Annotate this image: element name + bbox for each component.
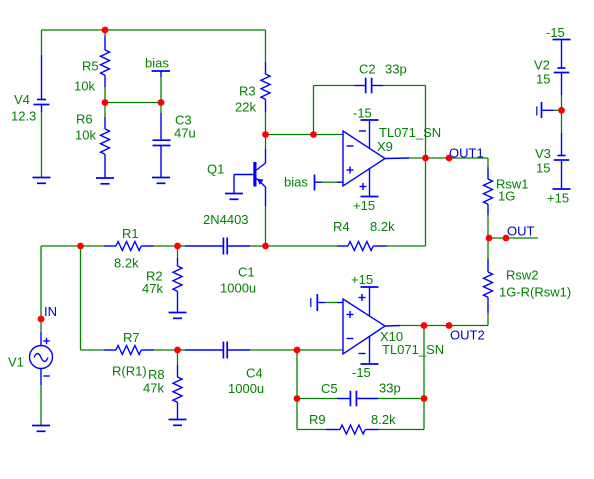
svg-text:8.2k: 8.2k — [370, 219, 395, 234]
terminal bar bias X9 — [315, 175, 344, 191]
node dot C1 / Q1 emitter / R4 — [262, 243, 269, 250]
wire Rsw2 to OUT2 row — [487, 313, 489, 326]
wire bias terminal to X9 +input — [322, 181, 337, 183]
wire V1 to ground — [40, 385, 42, 426]
node dot IN / R1 / R7 branch — [77, 243, 84, 250]
svg-text:R4: R4 — [333, 219, 350, 234]
svg-text:R9: R9 — [309, 412, 326, 427]
node dot Rsw1 / Rsw2 — [486, 235, 493, 242]
svg-text:47k: 47k — [142, 281, 163, 296]
svg-text:bias: bias — [145, 56, 169, 71]
wire node to X10 inverting input — [297, 349, 343, 351]
voltage source V1 sine — [30, 332, 53, 385]
svg-text:OUT: OUT — [507, 224, 535, 239]
wire C2 left leg — [313, 86, 315, 135]
wire C2 row right — [383, 85, 426, 87]
resistor Rsw2 — [484, 259, 493, 313]
svg-text:V1: V1 — [8, 355, 24, 370]
svg-text:TL071_SN: TL071_SN — [379, 125, 441, 140]
resistor R4 — [337, 242, 387, 251]
wire corner down to V1 — [40, 246, 42, 332]
svg-text:R(R1): R(R1) — [112, 364, 147, 379]
transistor Q1 2N4403 — [234, 149, 266, 206]
svg-text:V2: V2 — [534, 58, 550, 73]
ground below R8 — [169, 420, 187, 426]
svg-text:+15: +15 — [351, 272, 373, 287]
node dot R3 / Q1 collector — [262, 131, 269, 138]
svg-text:-15: -15 — [353, 106, 372, 121]
svg-text:-15: -15 — [352, 365, 371, 380]
wire Q1 emitter to C1 node — [265, 206, 267, 246]
voltage source V4 battery symbol — [34, 55, 50, 112]
ground below C3 — [152, 178, 170, 184]
svg-text:I: I — [309, 295, 313, 310]
svg-text:33p: 33p — [385, 62, 407, 77]
wire R9 row left — [297, 429, 326, 431]
svg-text:C2: C2 — [359, 62, 376, 77]
voltage source V3 lead — [561, 133, 563, 156]
capacitor C2 — [355, 78, 383, 94]
svg-text:47k: 47k — [143, 381, 164, 396]
node dot V2 / V3 / I — [558, 107, 565, 114]
resistor R9 — [326, 425, 379, 434]
wire top rail V4+ to R3 — [42, 29, 266, 31]
node dot bias / C3 — [158, 99, 165, 106]
wire OUT node down to Rsw2 — [487, 238, 489, 259]
wire top rail to R3 — [265, 30, 267, 62]
wire V4 top — [41, 30, 43, 55]
svg-text:+15: +15 — [353, 198, 375, 213]
wire C1 to Q1 node — [250, 245, 266, 247]
node dot IN — [38, 316, 45, 323]
op-amp X10 TL071_SN — [343, 287, 385, 364]
wire I terminal to node — [554, 109, 562, 111]
wire Q1 node to X9 inverting input — [266, 134, 344, 136]
svg-text:X9: X9 — [377, 139, 393, 154]
svg-text:R7: R7 — [123, 330, 140, 345]
svg-text:2N4403: 2N4403 — [203, 212, 249, 227]
resistor R5 — [101, 36, 110, 87]
svg-text:OUT1: OUT1 — [449, 146, 484, 161]
resistor R7 — [104, 346, 154, 355]
terminal bar I at X10 +input — [317, 294, 343, 311]
ground at Q1 base — [225, 175, 243, 200]
node dot C4 / X10 -input — [294, 347, 301, 354]
svg-text:1000u: 1000u — [228, 381, 264, 396]
svg-text:47u: 47u — [174, 126, 196, 141]
wire X9 output to OUT1 corner — [409, 157, 488, 159]
voltage source V2 battery — [554, 68, 570, 73]
wire node to R4 — [266, 245, 338, 247]
wire top rail to R5 — [104, 30, 106, 36]
wire R1 node down to R7 row — [80, 246, 82, 350]
terminal bar +15 right — [553, 160, 571, 189]
wire V4- to ground — [41, 112, 43, 178]
wire C5 row right — [378, 398, 424, 400]
svg-text:V4: V4 — [14, 92, 30, 107]
X10 output lead — [385, 325, 400, 328]
resistor R1 — [104, 242, 154, 251]
wire Rsw1 to OUT node — [487, 215, 489, 238]
svg-text:C4: C4 — [246, 366, 263, 381]
wire V2 to V3 node I — [561, 95, 563, 133]
terminal bar -15 right — [553, 40, 571, 69]
wire R2 node down — [177, 246, 179, 258]
svg-text:V3: V3 — [535, 146, 551, 161]
wire bias node to C3 — [160, 103, 162, 114]
svg-text:12.3: 12.3 — [11, 109, 36, 124]
svg-text:15: 15 — [536, 72, 550, 87]
wire bias terminal to node — [160, 77, 162, 103]
capacitor C5 — [337, 391, 378, 407]
svg-text:22k: 22k — [235, 100, 256, 115]
svg-text:10k: 10k — [74, 79, 95, 94]
wire R8 node to C4 — [178, 349, 186, 351]
svg-text:8.2k: 8.2k — [114, 256, 139, 271]
node dot C5 right — [421, 395, 428, 402]
node dot R7 / R8 / C4 — [174, 347, 181, 354]
node dot X10 output feedback — [421, 322, 428, 329]
svg-text:+15: +15 — [547, 191, 569, 206]
capacitor C4 — [185, 342, 250, 359]
ground below R2 — [169, 313, 187, 319]
wire node to Q1 collector — [265, 135, 267, 150]
svg-text:33p: 33p — [379, 381, 401, 396]
resistor Rsw1 — [484, 167, 493, 215]
resistor R3 — [261, 62, 270, 112]
capacitor C1 — [185, 238, 250, 255]
resistor R6 — [101, 117, 110, 178]
wire I terminal to X10 +input — [325, 302, 337, 304]
wire bias node to R6 — [104, 103, 106, 118]
node dot C5 left — [294, 395, 301, 402]
wire bias row — [105, 102, 161, 104]
ground below R6 — [96, 178, 114, 184]
ground below V1 — [32, 426, 50, 432]
node dot OUT1 — [446, 155, 453, 162]
svg-text:1000u: 1000u — [220, 281, 256, 296]
svg-text:Rsw2: Rsw2 — [506, 268, 539, 283]
svg-text:R1: R1 — [122, 226, 139, 241]
wire R5 to bias node — [104, 87, 106, 103]
wire R2 node to C1 — [178, 245, 186, 247]
capacitor C3 symbol — [153, 113, 171, 178]
node dot bias / R5-R6 — [102, 99, 109, 106]
node dot OUT2 — [446, 322, 453, 329]
svg-text:1G: 1G — [498, 189, 515, 204]
node dot X9 output feedback — [422, 155, 429, 162]
wire R9 row right — [379, 429, 424, 431]
wire C5 row left — [297, 398, 337, 400]
svg-text:C5: C5 — [321, 381, 338, 396]
svg-text:8.2k: 8.2k — [371, 412, 396, 427]
node dot C2 leg / X9 -input — [310, 131, 317, 138]
svg-text:C1: C1 — [238, 265, 255, 280]
op-amp X9 TL071_SN — [343, 120, 385, 197]
resistor R8 — [173, 365, 182, 420]
wire R8 node down — [177, 350, 179, 365]
wire X9 feedback vertical — [425, 86, 427, 247]
svg-text:Q1: Q1 — [207, 162, 224, 177]
svg-text:R5: R5 — [82, 59, 99, 74]
svg-text:IN: IN — [44, 304, 57, 319]
wire IN corner to R1 — [41, 245, 104, 247]
X9 output lead — [385, 157, 409, 160]
terminal bar bias — [152, 71, 171, 77]
svg-text:OUT2: OUT2 — [450, 328, 485, 343]
svg-text:-15: -15 — [546, 25, 565, 40]
voltage source V3 battery — [554, 156, 570, 161]
wire OUT1 corner down to Rsw1 — [487, 158, 489, 167]
terminal bar I — [542, 102, 554, 118]
wire X10 input node down to R9 row — [296, 350, 298, 430]
node dot top rail / R5 — [102, 27, 109, 34]
wire OUT stub — [488, 237, 538, 239]
svg-text:R3: R3 — [239, 84, 256, 99]
wire R1 to R2 node — [154, 245, 178, 247]
wire R3 to Q1 collector node — [265, 112, 267, 135]
wire R4 to feedback corner — [387, 245, 426, 247]
wire OUT2 row — [400, 325, 488, 327]
svg-text:TL071_SN: TL071_SN — [382, 342, 444, 357]
svg-text:R6: R6 — [76, 112, 93, 127]
svg-text:10k: 10k — [75, 128, 96, 143]
svg-text:15: 15 — [536, 161, 550, 176]
voltage source V2 lead — [561, 73, 563, 96]
resistor R2 — [173, 258, 182, 313]
svg-text:I: I — [535, 104, 539, 119]
wire R7 to R8 node — [154, 349, 178, 351]
wire OUT2 node down to R9 row — [423, 326, 425, 430]
wire C2 row left — [314, 85, 356, 87]
node dot OUT — [503, 235, 510, 242]
svg-text:bias: bias — [284, 175, 308, 190]
wire corner to R7 — [81, 349, 105, 351]
node dot R1 / R2 / C1 — [174, 243, 181, 250]
ground below V4 — [33, 178, 51, 184]
svg-text:1G-R(Rsw1): 1G-R(Rsw1) — [499, 285, 571, 300]
wire C4 to X10 input node — [250, 349, 297, 351]
